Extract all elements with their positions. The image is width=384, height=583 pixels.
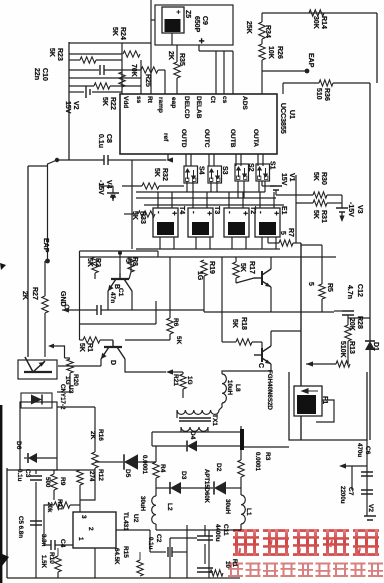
wire right bus x377 bbox=[376, 13, 378, 83]
svg-text:S1: S1 bbox=[269, 161, 276, 170]
svg-text:C3: C3 bbox=[24, 469, 31, 478]
svg-text:R28: R28 bbox=[356, 316, 363, 329]
diode D5 bbox=[107, 461, 123, 463]
transistor C (IGBT FGH40N6S2D) bbox=[254, 346, 271, 364]
svg-text:OUTB: OUTB bbox=[229, 129, 236, 148]
resistor R12 bbox=[77, 470, 83, 485]
arrow R21 bbox=[166, 369, 173, 374]
svg-text:S2: S2 bbox=[247, 163, 254, 172]
wire opto to R20 bottom bbox=[57, 391, 70, 393]
svg-text:ramp: ramp bbox=[157, 97, 164, 113]
svg-text:R16: R16 bbox=[97, 429, 104, 441]
wire y160 with C8 bbox=[57, 159, 104, 161]
wire vertical x222 bbox=[221, 257, 223, 342]
wire to C2 bbox=[149, 530, 151, 552]
switch block S4 bbox=[184, 166, 198, 183]
svg-text:Vdd: Vdd bbox=[122, 96, 129, 108]
wire transformer bottom bbox=[173, 237, 175, 249]
svg-text:25K: 25K bbox=[245, 21, 252, 34]
wire TL431 pin2 right bbox=[116, 529, 150, 531]
resistor 70K bbox=[69, 85, 94, 87]
wire transformer bottom bbox=[209, 237, 211, 249]
resistor R35 bbox=[174, 62, 180, 78]
wire bus seg bbox=[273, 192, 275, 205]
regulator U2 TL431 bbox=[73, 512, 116, 548]
svg-text:R17: R17 bbox=[248, 261, 255, 274]
wire R27 down bbox=[44, 313, 46, 357]
wire bus to transformer bbox=[259, 205, 261, 208]
wire R6 bottom to D bbox=[125, 339, 170, 341]
resistor R4 bbox=[155, 446, 157, 462]
svg-text:T4: T4 bbox=[178, 206, 185, 214]
wire S box bottom bbox=[192, 181, 194, 192]
svg-text:Z5: Z5 bbox=[184, 10, 191, 18]
output connector box bbox=[169, 538, 171, 578]
wire y311 to C12 bbox=[334, 310, 342, 312]
diode D3 bbox=[169, 482, 171, 494]
switch block S2 bbox=[235, 164, 249, 181]
wire S box bottom bbox=[210, 181, 212, 192]
resistor R7 bbox=[267, 237, 269, 243]
wire IGBT collector bbox=[270, 331, 272, 346]
battery V3 -15V bbox=[341, 195, 343, 208]
wire x262 to IC bbox=[261, 60, 263, 94]
wire transformer bottom bbox=[159, 237, 161, 249]
wire bus to transformer bbox=[171, 205, 173, 208]
resistor R25 bbox=[141, 67, 158, 73]
svg-text:R15: R15 bbox=[122, 546, 129, 558]
svg-text:D5: D5 bbox=[124, 469, 131, 478]
transistor E (driver) bbox=[254, 269, 271, 287]
svg-text:L1: L1 bbox=[245, 508, 252, 516]
svg-text:-: - bbox=[155, 211, 164, 214]
capacitor C4 bbox=[44, 544, 51, 546]
optocoupler lower box bbox=[20, 402, 57, 470]
wire S box bottom bbox=[216, 181, 218, 192]
wire y83 with R36 bbox=[283, 82, 319, 84]
wire S box bottom bbox=[258, 181, 260, 192]
transformer T4 bbox=[153, 208, 178, 237]
resistor R11 bbox=[54, 502, 70, 508]
capacitor C2 bbox=[150, 551, 166, 553]
svg-text:R19: R19 bbox=[208, 261, 215, 274]
svg-text:R12: R12 bbox=[97, 469, 104, 481]
wire R20 down bbox=[69, 373, 71, 392]
wire C9 to ladder bbox=[151, 19, 155, 21]
svg-text:+: + bbox=[272, 211, 281, 216]
capacitor C11 bbox=[197, 536, 213, 540]
svg-text:-15V: -15V bbox=[347, 202, 354, 217]
svg-text:10K: 10K bbox=[267, 46, 274, 59]
svg-text:R8: R8 bbox=[131, 257, 138, 266]
svg-text:5K: 5K bbox=[175, 336, 182, 345]
svg-text:R36510: R36510 bbox=[315, 88, 330, 101]
wire IGBT emitter to L8 bbox=[222, 364, 271, 374]
resistor R9 bbox=[53, 470, 55, 474]
resistor R3 bbox=[238, 460, 244, 477]
capacitor C12 bbox=[342, 311, 354, 315]
transistor Q left (PNP) bbox=[24, 357, 52, 372]
wire IC out to S box 2 bbox=[213, 154, 215, 166]
wire secondary to rectifier bbox=[152, 431, 241, 433]
wire y470 top rail bbox=[7, 469, 95, 471]
inductor L8 bbox=[222, 374, 226, 403]
svg-text:+: + bbox=[195, 38, 206, 44]
wire D2 to L1 bbox=[226, 487, 241, 489]
svg-text:2: 2 bbox=[87, 527, 94, 531]
wire B emitter down bbox=[107, 291, 109, 310]
svg-text:5K: 5K bbox=[239, 263, 246, 272]
capacitor C3 bbox=[35, 470, 37, 474]
bottom bus y578 bbox=[7, 577, 240, 579]
svg-text:DELCD: DELCD bbox=[183, 96, 190, 119]
svg-text:10uH: 10uH bbox=[226, 380, 233, 396]
watermark 易迪拓培训 bbox=[233, 529, 379, 556]
svg-text:cs: cs bbox=[221, 96, 228, 104]
svg-text:1G: 1G bbox=[186, 376, 193, 385]
svg-text:R20: R20 bbox=[72, 374, 79, 386]
arrow output bbox=[345, 465, 367, 467]
transformer TX1 core bbox=[179, 417, 211, 419]
wire D collector to R21 bbox=[125, 359, 166, 372]
node EAP bbox=[262, 70, 305, 72]
svg-text:eap: eap bbox=[170, 97, 177, 108]
svg-text:UCC3855: UCC3855 bbox=[279, 103, 286, 134]
svg-text:4.7n: 4.7n bbox=[346, 285, 353, 299]
wire transformer bottom bbox=[245, 237, 247, 249]
wire transformer bottom bbox=[275, 237, 277, 249]
svg-text:R18: R18 bbox=[240, 317, 247, 330]
svg-text:1: 1 bbox=[77, 537, 84, 541]
resistor R32 bbox=[122, 185, 142, 187]
svg-text:47n: 47n bbox=[109, 292, 116, 303]
wire base B bbox=[119, 253, 121, 273]
wire R9 down bbox=[53, 490, 55, 500]
svg-text:R1430K: R1430K bbox=[312, 16, 327, 29]
wire B collector down bbox=[131, 291, 133, 310]
opto inner LED box bbox=[21, 393, 52, 408]
svg-text:2200u: 2200u bbox=[339, 486, 346, 504]
wire right bus x370 lower bbox=[369, 350, 371, 440]
battery V2 15V bbox=[69, 91, 84, 93]
resistor R21 bbox=[173, 371, 183, 373]
node EAP lower bbox=[45, 259, 50, 264]
resistor R6 bbox=[167, 318, 173, 334]
svg-text:510K: 510K bbox=[339, 341, 346, 358]
svg-text:EAP: EAP bbox=[42, 238, 49, 253]
wire bus to transformer bbox=[273, 205, 275, 208]
wire x262 top bbox=[261, 13, 263, 22]
wire IC out to S box bbox=[208, 154, 210, 166]
thick mark near D4 box bbox=[240, 429, 244, 450]
wire right column x367 bbox=[366, 440, 368, 516]
resistor R16 bbox=[92, 452, 98, 468]
inductor L1 coil bbox=[241, 495, 245, 524]
svg-text:OUTA: OUTA bbox=[252, 129, 259, 147]
svg-text:D2: D2 bbox=[215, 463, 222, 472]
box around transistor B bbox=[80, 250, 159, 252]
wire R16 down bbox=[94, 468, 96, 490]
wire R18 to base bbox=[252, 341, 262, 343]
wire right bus x370 upper bbox=[369, 83, 371, 341]
svg-text:C4: C4 bbox=[59, 539, 66, 548]
battery V2 output bbox=[364, 516, 376, 520]
wire bus seg bbox=[228, 192, 230, 205]
svg-text:R4: R4 bbox=[159, 464, 166, 473]
wire vertical x141 bbox=[140, 60, 142, 94]
wire bus to transformer bbox=[206, 205, 208, 208]
wire vertical x296 bbox=[295, 175, 297, 243]
svg-text:EAP: EAP bbox=[307, 53, 314, 68]
transformer T3 bbox=[188, 208, 213, 237]
resistor R24 bbox=[123, 51, 140, 57]
wire IC out to S box 2 bbox=[240, 154, 242, 166]
wire R16 to TL431 bbox=[80, 490, 95, 500]
svg-text:1G: 1G bbox=[196, 271, 203, 281]
svg-text:20K: 20K bbox=[348, 318, 355, 331]
svg-text:FGH40N6S2D: FGH40N6S2D bbox=[266, 370, 273, 410]
transistor D bbox=[101, 341, 125, 359]
wire left frame x28 bbox=[27, 166, 29, 357]
wire box right edge bbox=[155, 301, 157, 324]
svg-text:D6: D6 bbox=[15, 441, 22, 450]
capacitor C1 bbox=[80, 309, 98, 311]
resistor R26 bbox=[259, 44, 265, 60]
wire bus seg bbox=[157, 192, 159, 205]
wire S box bottom bbox=[237, 181, 239, 198]
wire R2 bottom bbox=[94, 273, 96, 279]
wire vertical x216 bbox=[215, 51, 217, 94]
wire IC out to S box bbox=[257, 154, 259, 166]
wire y312 horizontal bbox=[204, 311, 334, 313]
resistor R34 bbox=[259, 22, 265, 39]
svg-text:ADS: ADS bbox=[241, 96, 248, 110]
svg-text:64.5K: 64.5K bbox=[113, 548, 120, 565]
svg-text:C1: C1 bbox=[117, 288, 124, 297]
svg-text:4400u: 4400u bbox=[214, 524, 221, 542]
wire y43 bbox=[69, 42, 151, 44]
wire emitter down bbox=[270, 287, 272, 312]
wire base link bbox=[236, 278, 254, 283]
resistor R22 bbox=[119, 72, 125, 87]
wire R16 area to D5 bbox=[95, 461, 107, 463]
svg-text:OUTC: OUTC bbox=[203, 129, 210, 148]
diode D4 bbox=[152, 445, 186, 447]
bus wire y257 bbox=[80, 256, 337, 258]
wire R21 down bbox=[182, 389, 184, 398]
wire bus seg bbox=[242, 192, 244, 205]
wire y447 stub bbox=[244, 446, 289, 448]
wire x262 mid bbox=[261, 39, 263, 44]
wire left frame bottom bbox=[6, 468, 8, 578]
svg-text:R7: R7 bbox=[287, 228, 294, 237]
wire stub x352 bbox=[351, 466, 353, 490]
wire main vertical x301 bbox=[300, 243, 302, 386]
wire IC out to S box bbox=[185, 154, 187, 166]
svg-text:1.5K: 1.5K bbox=[40, 555, 47, 569]
svg-text:2K: 2K bbox=[167, 51, 174, 60]
capacitor C5 bbox=[30, 521, 42, 525]
wire bus seg bbox=[192, 192, 194, 205]
wire to left transistor bbox=[58, 365, 101, 367]
svg-text:DELAB: DELAB bbox=[195, 96, 202, 119]
resistor R17 bbox=[233, 262, 239, 278]
wire IC out to S box 2 bbox=[262, 154, 264, 166]
inductor L1 bbox=[240, 446, 242, 460]
svg-text:D: D bbox=[109, 360, 116, 365]
svg-text:GND: GND bbox=[59, 291, 66, 307]
svg-text:5: 5 bbox=[124, 259, 131, 263]
capacitor C9 (electrolytic, black body) bbox=[162, 7, 184, 33]
resistor R23 bbox=[69, 59, 80, 61]
svg-text:C5 6.8n: C5 6.8n bbox=[17, 516, 24, 538]
capacitor C6 bbox=[361, 472, 373, 476]
svg-text:C6: C6 bbox=[364, 446, 371, 455]
wire arrow to R20 bbox=[65, 357, 71, 359]
svg-text:R10: R10 bbox=[48, 552, 55, 564]
watermark 射频和天线设计专家 bbox=[228, 563, 383, 578]
wire corner x28 top bbox=[28, 165, 48, 167]
wire x283 to IC bbox=[282, 83, 284, 94]
resistor R5 bbox=[321, 245, 323, 284]
svg-text:R15K: R15K bbox=[78, 343, 93, 352]
switch block S1 bbox=[256, 164, 270, 181]
wire box left bbox=[79, 251, 81, 324]
diode D2 APT15D60K bbox=[213, 481, 215, 494]
svg-text:OUTD: OUTD bbox=[180, 129, 187, 148]
bus wire y249 bbox=[136, 248, 280, 250]
svg-text:U1: U1 bbox=[288, 110, 295, 119]
wire S box bottom bbox=[243, 181, 245, 198]
svg-text:20k: 20k bbox=[46, 502, 53, 513]
wire transformer bottom bbox=[195, 237, 197, 249]
wire D emitter bbox=[100, 359, 102, 366]
wire x301 lower bbox=[300, 416, 302, 440]
svg-text:D3: D3 bbox=[180, 471, 187, 480]
battery V1 15V bbox=[261, 181, 263, 186]
resistor R28 bbox=[347, 315, 349, 325]
svg-text:5K: 5K bbox=[231, 319, 238, 328]
svg-text:R25K: R25K bbox=[86, 258, 101, 267]
svg-text:T3: T3 bbox=[213, 206, 220, 214]
wire y78 bbox=[69, 77, 141, 79]
op-amp U1 UCC3855 (PFC controller IC) bbox=[120, 94, 277, 154]
wire IC out to S box 2 bbox=[190, 154, 192, 166]
wire vertical x95 bbox=[94, 407, 96, 452]
svg-text:V3: V3 bbox=[356, 205, 363, 214]
svg-text:-: - bbox=[226, 211, 235, 214]
svg-text:Rt: Rt bbox=[146, 96, 153, 104]
svg-text:D4: D4 bbox=[189, 431, 196, 440]
wire R1 to D base bbox=[100, 339, 113, 341]
svg-text:5: 5 bbox=[307, 282, 314, 286]
svg-text:470u: 470u bbox=[356, 443, 363, 457]
wire y530 output rail bbox=[155, 524, 157, 530]
svg-text:30uH: 30uH bbox=[139, 496, 146, 512]
svg-text:70K: 70K bbox=[130, 64, 137, 77]
svg-text:C: C bbox=[257, 363, 264, 368]
wire R12 to TL431 bbox=[79, 485, 81, 512]
wire left vertical bus x69 bbox=[68, 42, 70, 160]
svg-text:5: 5 bbox=[279, 231, 286, 235]
wire IC out to S box bbox=[235, 154, 237, 166]
wire vertical x132 bbox=[131, 160, 133, 249]
svg-text:3: 3 bbox=[80, 515, 87, 519]
wire down-left corner bbox=[48, 160, 58, 259]
svg-text:C11: C11 bbox=[222, 524, 229, 536]
wire y51 under C9 box bbox=[199, 50, 233, 52]
resistor R30 bbox=[296, 194, 313, 196]
svg-text:E1: E1 bbox=[280, 206, 287, 215]
transformer TX1 secondary bbox=[181, 427, 208, 431]
svg-text:L8: L8 bbox=[234, 384, 241, 392]
svg-text:C7: C7 bbox=[347, 487, 354, 496]
svg-text:S3: S3 bbox=[221, 166, 228, 175]
capacitor C10 bbox=[69, 69, 99, 71]
transformer E1 bbox=[255, 208, 280, 237]
svg-text:D1: D1 bbox=[372, 342, 379, 351]
wire bus to transformer bbox=[157, 205, 159, 208]
svg-text:R21: R21 bbox=[172, 374, 179, 386]
scan edge artifact left bbox=[0, 405, 2, 583]
resistor R31 bbox=[296, 202, 313, 204]
wire vertical x151 bbox=[150, 0, 152, 94]
svg-text:+: + bbox=[174, 10, 181, 14]
svg-text:Ct: Ct bbox=[209, 96, 216, 104]
diode in opto (points right) bbox=[41, 395, 43, 405]
svg-text:R5: R5 bbox=[326, 283, 333, 292]
battery V4 -15V bbox=[107, 193, 119, 197]
svg-text:R11: R11 bbox=[56, 499, 63, 511]
svg-text:R13: R13 bbox=[348, 341, 355, 354]
wire y54 bbox=[69, 53, 122, 55]
svg-text:R26: R26 bbox=[276, 46, 283, 59]
svg-text:+: + bbox=[170, 211, 179, 216]
resistor R14 bbox=[309, 10, 324, 16]
junction dot bbox=[55, 158, 59, 162]
bus wires under S row bbox=[136, 191, 265, 193]
wire V4 stub bbox=[99, 185, 113, 187]
wire TL431 pin1 down bbox=[94, 548, 96, 578]
svg-text:R34: R34 bbox=[264, 25, 271, 38]
diode D1 bbox=[365, 340, 375, 342]
svg-text:R3: R3 bbox=[264, 452, 271, 461]
svg-text:0.0001: 0.0001 bbox=[254, 452, 261, 471]
wire bus seg bbox=[171, 192, 173, 205]
svg-text:S4: S4 bbox=[198, 166, 205, 175]
resistor R13 bbox=[336, 361, 350, 367]
wire collector up bbox=[270, 257, 272, 269]
arrow into ref bbox=[166, 157, 173, 162]
wire bus to transformer bbox=[228, 205, 230, 208]
junction dot B bbox=[118, 251, 122, 255]
wire R7 corner to R5 bbox=[301, 244, 322, 246]
resistor R2 bbox=[92, 257, 98, 273]
svg-text:0.1u: 0.1u bbox=[16, 469, 23, 482]
svg-text:R9: R9 bbox=[59, 477, 66, 486]
svg-text:C2: C2 bbox=[155, 534, 162, 543]
svg-text:TX1: TX1 bbox=[211, 414, 218, 426]
svg-text:10: 10 bbox=[224, 561, 231, 568]
wire box right top bbox=[157, 251, 159, 257]
svg-text:+: + bbox=[241, 211, 250, 216]
svg-text:274: 274 bbox=[88, 471, 95, 482]
svg-text:C12: C12 bbox=[356, 284, 363, 297]
fuse/CT F1 bbox=[294, 386, 322, 416]
resistor R19 bbox=[201, 260, 207, 276]
resistor R18 bbox=[222, 341, 236, 343]
svg-text:ss: ss bbox=[135, 96, 142, 104]
